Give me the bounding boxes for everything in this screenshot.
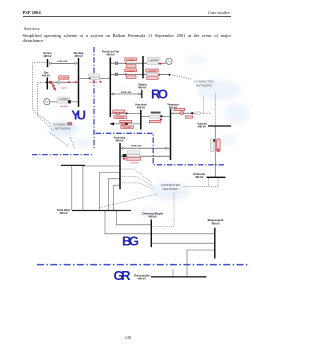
box red Tantareni east [180,112,183,115]
busbar Thessaloniki [151,276,207,278]
border BG/GR horizontal [37,264,250,266]
label Kozloduy line2 above [127,151,140,154]
svg-text:-1000MW: -1000MW [130,163,139,165]
svg-text:NETWORK: NETWORK [196,83,212,87]
border YU/BG horizontal [32,154,93,156]
label line A right online [147,62,159,65]
wire Sofia West to Chervena Mogila upper [116,211,151,225]
wire Blagoevgrad-Thessaloniki [187,250,215,277]
label Djerdap-Portile above [88,74,100,77]
svg-text:400 kV: 400 kV [211,222,219,226]
busbar Kozloduy [119,143,121,189]
svg-text:400 kV: 400 kV [59,211,67,215]
svg-text:+1000MW: +1000MW [88,82,97,84]
arrow red Bor line 1 [68,81,71,83]
wire export arrow to Urechesti [114,123,141,125]
label Tantareni east below [186,116,193,118]
wire Chervena Mogila-Blagoevgrad 2 [151,242,215,244]
label gen flow online [57,101,68,104]
svg-text:400 kV: 400 kV [106,52,114,56]
breaker closed export line [125,123,128,125]
mark red Kozloduy line2 [123,158,125,160]
label line B right below [147,77,159,80]
label Djerdap-Portile online [90,77,99,80]
label rotated red Isaccea column [217,139,221,152]
busbar Tantareni [170,109,172,160]
svg-text:-1000MW: -1000MW [116,117,124,119]
svg-text:400 kV: 400 kV [115,138,123,142]
label Urechesti-Tantareni above [151,112,161,114]
label rotated gray Isaccea column [211,139,215,152]
border RO/BG stepped [96,133,226,165]
wire Portile-Slatina line A [110,62,166,64]
wire Djerdap-Portile de Fier [79,77,111,79]
wire dashed Kozloduy to BG connected network 3 [120,183,155,190]
label Tantareni east above [174,108,185,110]
arrowhead west export [109,122,114,125]
wire Isaccea-Dobrudja [214,126,216,177]
arrow black Tantareni east [191,112,194,115]
busbar Chervena Mogila [150,220,152,248]
breaker circle Tantareni end [165,147,167,149]
svg-text:+1000MW: +1000MW [149,59,158,61]
wire Kozloduy west circuit 3 [108,179,120,211]
arrow red Djerdap-Portile [99,81,102,83]
svg-text:+1000MW: +1000MW [126,70,135,72]
label export line above [120,120,132,122]
breaker closed Kozloduy line2 [123,154,127,157]
arrow black Djerdap-Portile [89,77,91,79]
svg-text:-1090MW: -1090MW [59,78,68,80]
wire dashed YU network south 1 [50,133,69,147]
busbar Sofia West [72,210,131,212]
svg-text:400 kV: 400 kV [148,215,156,219]
breaker circle open line right [138,93,140,95]
mark red Urechesti-Tantareni [160,119,162,121]
svg-text:-1000MW: -1000MW [123,127,131,129]
svg-text:400 kV: 400 kV [198,124,206,128]
arrow red Bor line 2 [75,81,78,83]
svg-text:400 kV: 400 kV [43,54,51,58]
busbar YU junction [61,164,85,166]
svg-text:tripped: tripped [61,87,67,90]
label export line below [121,126,134,128]
wire dashed Drmno to YU connected network [33,63,52,125]
busbar Dobrudja [207,176,226,178]
lightning bolt fault [51,83,56,90]
svg-text:+1000MW: +1000MW [126,59,135,61]
wire Kozloduy-Tantareni open line [120,147,171,149]
svg-text:OPEN LINE: OPEN LINE [121,92,132,94]
wire Drmno-Djerdap open line [49,62,78,64]
breaker circle open line left [112,93,114,95]
label Urechesti-Tantareni below [149,120,160,122]
wire Sofia West to Blagoevgrad via south [105,211,215,234]
svg-text:400 kV: 400 kV [42,73,50,77]
label Kozloduy line2 below red1 [126,158,140,161]
svg-text:+1090MW: +1090MW [59,106,68,108]
breaker X Portile line A [115,62,117,64]
wire dashed Dobrudja to BG connected network [184,178,219,186]
busbar Portile de Fier [109,58,111,117]
label Portile-Urechesti above [113,110,125,113]
svg-text:OPEN LINE: OPEN LINE [131,146,142,148]
arrow red line A left [124,62,127,64]
label red under YU [68,122,72,124]
svg-text:OPEN LINE: OPEN LINE [57,61,68,63]
busbar Slatina upper [142,56,144,78]
wire Portile-Slatina open line [110,93,142,95]
breaker circle Drmno end [49,62,51,64]
svg-text:+1090MW: +1090MW [59,98,68,100]
svg-text:400 kV: 400 kV [138,86,146,90]
wire dashed BG network to Chervena Mogila [151,193,174,227]
wire dashed Kozloduy to BG connected network 2 [120,177,154,187]
label line B left above [125,69,137,72]
wire dashed down to Isaccea [214,94,216,127]
busbar Blagoevgrad [214,228,216,259]
fault box on Bor line [49,81,52,83]
breaker closed gen line [68,100,71,103]
label flow Bor line [59,76,69,79]
svg-text:Blagoevgrad: Blagoevgrad [208,218,224,222]
svg-text:BG: BG [122,234,139,249]
wire dashed Bor to YU connected network [38,82,54,130]
wire Urechesti-Tantareni [141,116,171,118]
wire Kozloduy west circuit 4 [114,185,120,210]
label Urechesti-Tantareni online [149,115,160,118]
wire junction bus to Sofia West [71,165,73,210]
label line A left above [125,58,137,61]
wire generator Bor to Djerdap [50,101,78,103]
wire dashed YU network south 2 [70,138,75,150]
breaker circle Kozloduy end [122,147,124,149]
arrow black line B right [168,74,171,76]
svg-text:+1000MW: +1000MW [148,70,157,72]
svg-text:GR: GR [114,268,132,283]
box red export line [121,123,124,125]
svg-text:YU: YU [71,107,86,122]
svg-text:400 kV: 400 kV [169,105,177,109]
wire dashed up to RO connected network [203,97,205,113]
wire dashed Sofia West to BG connected network [100,194,158,208]
wire Portile-Urechesti [110,112,141,114]
label line B left below [126,76,136,79]
label line B right online [147,73,159,76]
label line B right above [146,69,158,72]
breaker X Portile line B [115,73,117,75]
busbar Djerdap [78,58,80,107]
wire Kozloduy-Tantareni line 2 [120,155,171,157]
svg-text:400 kV: 400 kV [137,105,145,109]
border YU/RO vertical [93,47,95,150]
arrow red line A right [159,63,162,65]
busbar Urechesti [140,110,142,130]
mark dark Isaccea column [213,139,215,142]
wire Kozloduy west circuit 1 [83,166,120,211]
wire dashed Tantareni to Isaccea corridor [196,112,210,114]
busbar Isaccea [208,125,231,127]
label line A left below [126,65,136,68]
wire Portile-Slatina line B [110,73,170,75]
wire stub to Thessaloniki [172,270,174,277]
arrow black Urechesti-Tantareni [160,115,163,118]
arrow red line B left [124,73,127,75]
busbar Bor [46,78,48,90]
busbar Slatina stub [141,90,143,98]
arrow on Bor dashed feeder [45,81,48,83]
box red Portile-Urechesti [116,112,119,114]
arrow red line B right [158,74,161,76]
generator Bor [44,99,50,105]
generator Slatina [166,58,172,64]
arrow black Portile-Urechesti [125,112,128,114]
label gray Tantareni east [195,112,201,114]
label gen flow above [58,97,70,100]
svg-text:RO: RO [151,87,168,102]
busbar Drmno [47,59,49,67]
wire Bor-Djerdap faulted line [47,81,78,83]
label Portile-Urechesti below [114,116,126,119]
svg-text:400 kV: 400 kV [138,277,146,281]
wire line B to connected network dashed [172,75,193,79]
wire Tantareni east [171,112,197,114]
svg-text:NETWORK: NETWORK [163,187,179,191]
breaker circle Djerdap end [74,62,76,64]
svg-text:NETWORK: NETWORK [55,126,71,130]
label Kozloduy line2 online [127,154,140,156]
mark red Isaccea column [217,149,219,151]
wire dashed Kozloduy to BG connected network 1 [120,169,153,184]
wire Kozloduy west circuit 2 [99,173,120,211]
label line A right above [148,58,160,61]
breaker open on Bor line [58,81,60,83]
svg-text:400 kV: 400 kV [195,175,203,179]
svg-text:400 kV: 400 kV [74,54,82,58]
